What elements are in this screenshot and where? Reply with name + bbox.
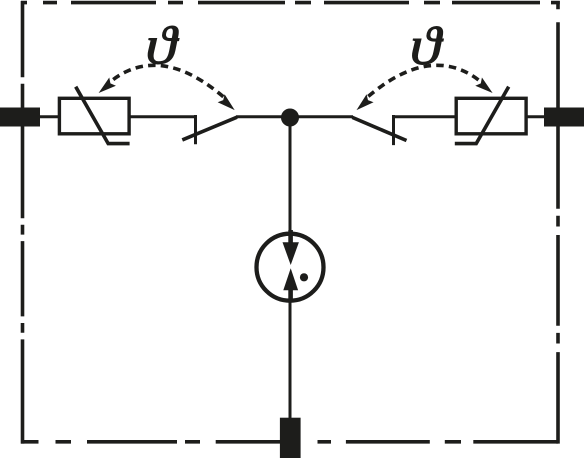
svg-text:ϑ: ϑ — [145, 16, 179, 76]
svg-text:ϑ: ϑ — [410, 16, 444, 76]
